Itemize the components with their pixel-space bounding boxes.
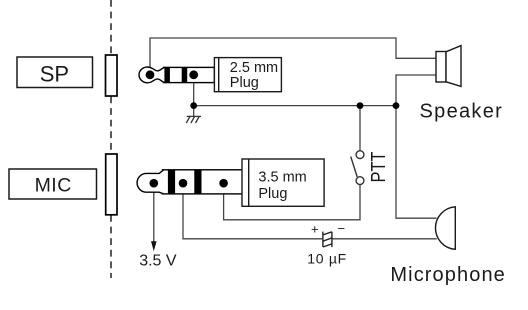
svg-text:Plug: Plug	[258, 186, 287, 202]
svg-text:3.5 mm: 3.5 mm	[258, 169, 306, 185]
svg-text:Microphone: Microphone	[390, 264, 506, 286]
svg-text:2.5 mm: 2.5 mm	[230, 60, 278, 76]
svg-text:3.5 V: 3.5 V	[139, 252, 177, 269]
svg-text:PTT: PTT	[366, 152, 389, 183]
svg-text:10 µF: 10 µF	[307, 250, 347, 266]
svg-text:MIC: MIC	[35, 174, 72, 196]
svg-text:Plug: Plug	[230, 75, 259, 91]
svg-text:SP: SP	[40, 61, 69, 86]
svg-text:+: +	[311, 222, 319, 237]
svg-text:−: −	[338, 221, 346, 236]
svg-text:Speaker: Speaker	[420, 100, 504, 122]
